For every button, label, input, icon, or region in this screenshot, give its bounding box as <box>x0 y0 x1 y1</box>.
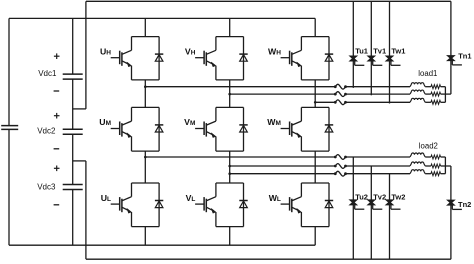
svg-text:Tw2: Tw2 <box>391 193 405 202</box>
svg-text:WH: WH <box>268 46 281 56</box>
svg-text:Tv1: Tv1 <box>373 47 386 56</box>
svg-text:load1: load1 <box>418 69 437 78</box>
svg-text:Tn2: Tn2 <box>458 200 471 209</box>
svg-text:WL: WL <box>269 193 281 203</box>
svg-text:VL: VL <box>186 193 196 203</box>
svg-text:load2: load2 <box>419 142 438 151</box>
svg-text:UL: UL <box>101 193 111 203</box>
svg-text:VH: VH <box>185 46 196 56</box>
svg-text:WM: WM <box>267 117 281 127</box>
svg-text:VM: VM <box>184 117 195 127</box>
svg-text:UH: UH <box>100 46 111 56</box>
svg-text:Vdc1: Vdc1 <box>38 69 57 78</box>
svg-text:Tw1: Tw1 <box>391 47 405 56</box>
svg-text:UM: UM <box>99 117 111 127</box>
svg-text:Tv2: Tv2 <box>373 193 386 202</box>
svg-text:Tu2: Tu2 <box>355 193 368 202</box>
svg-text:Tn1: Tn1 <box>458 51 471 60</box>
svg-text:Vdc2: Vdc2 <box>37 126 56 135</box>
svg-text:Vdc3: Vdc3 <box>37 182 56 191</box>
svg-text:Tu1: Tu1 <box>355 47 368 56</box>
